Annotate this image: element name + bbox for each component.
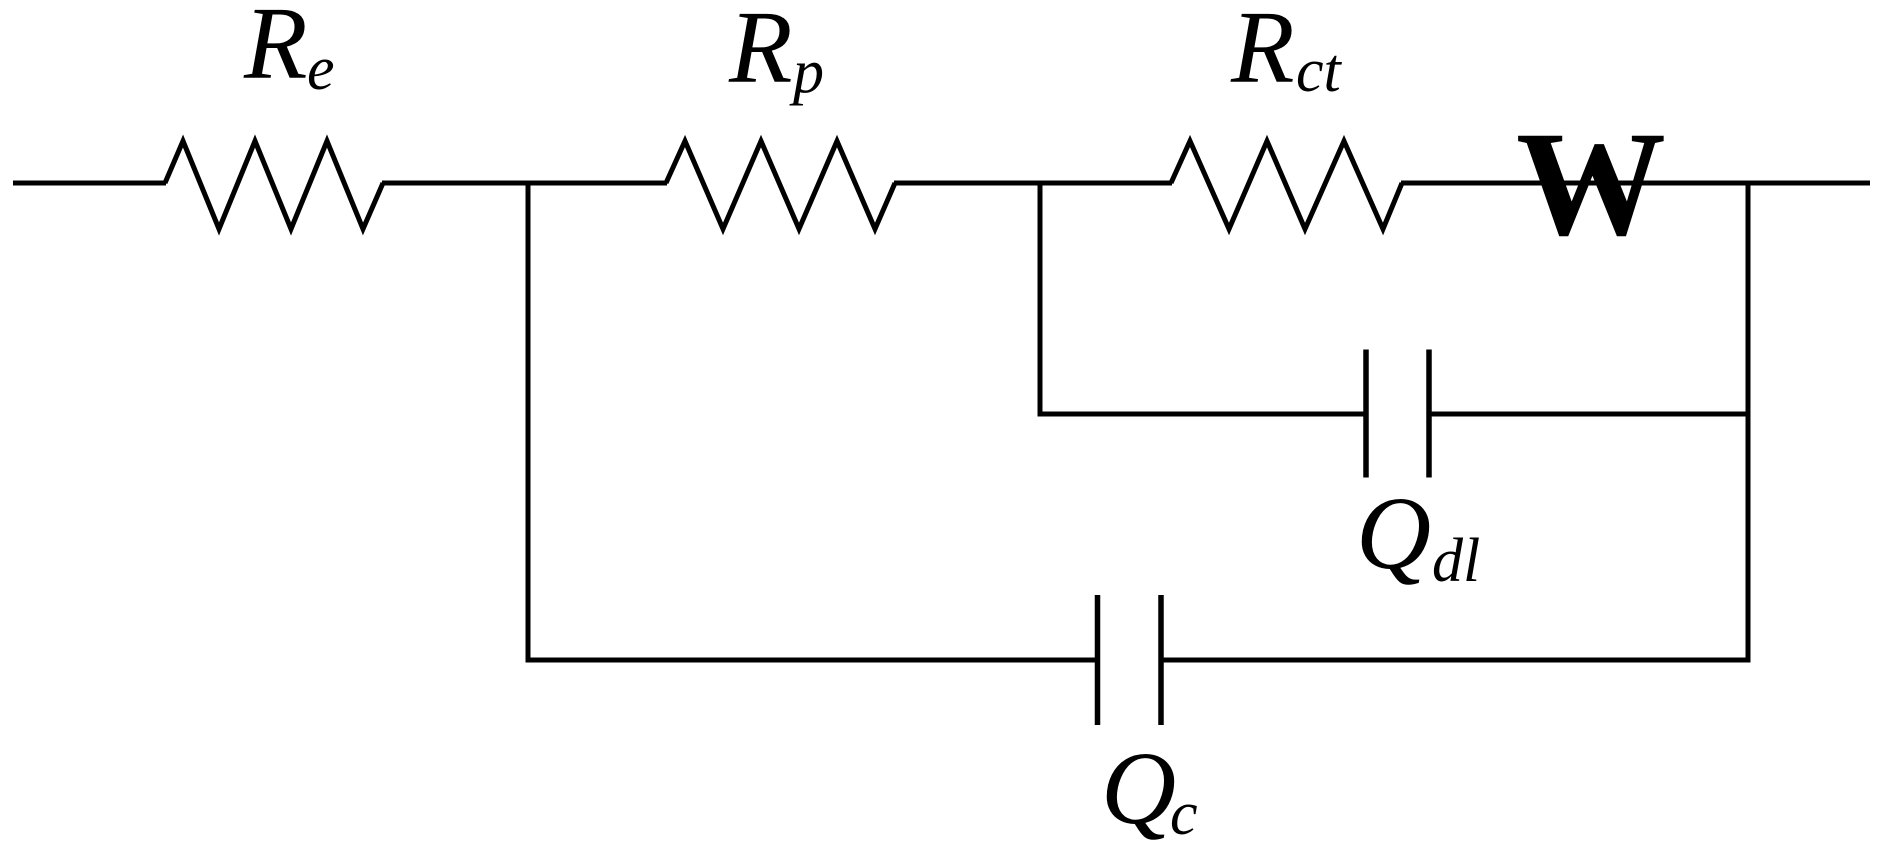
wire bottom branch left of Qc [526, 658, 1098, 663]
svg-text:W: W [1516, 101, 1666, 267]
wire vertical from node A down to bottom branch [526, 181, 531, 663]
wire middle branch left of Qdl [1038, 412, 1367, 417]
svg-text:dl: dl [1432, 527, 1480, 595]
wire top rail between Rp and Rct [894, 181, 1172, 186]
svg-text:e: e [307, 35, 335, 103]
wire bottom branch right of Qc [1161, 658, 1751, 663]
svg-text:Q: Q [1356, 476, 1431, 591]
svg-text:ct: ct [1296, 37, 1343, 105]
svg-text:R: R [243, 0, 308, 101]
svg-text:c: c [1170, 780, 1198, 848]
wire vertical right side joining all branches [1746, 181, 1751, 663]
svg-text:R: R [1230, 0, 1295, 105]
resistor R_p [666, 141, 895, 229]
svg-text:p: p [789, 38, 824, 106]
wire vertical from node B down to middle branch [1038, 181, 1043, 417]
wire top rail between Re and Rp [382, 181, 667, 186]
wire top rail left lead [13, 181, 166, 186]
svg-text:Q: Q [1101, 731, 1176, 846]
wire middle branch right of Qdl [1429, 412, 1751, 417]
capacitor Q_c plates [1095, 595, 1101, 725]
capacitor Q_dl plates [1363, 350, 1369, 478]
wire top rail right, passing under W [1401, 181, 1870, 186]
svg-text:R: R [728, 0, 793, 105]
resistor R_e [165, 141, 383, 229]
resistor R_ct [1171, 141, 1402, 229]
